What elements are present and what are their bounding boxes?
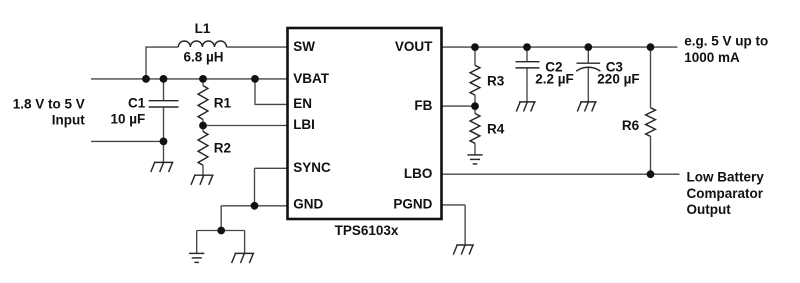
svg-text:L1: L1 (195, 21, 211, 36)
svg-text:220 µF: 220 µF (597, 71, 639, 86)
svg-text:10 µF: 10 µF (111, 112, 146, 127)
svg-text:Output: Output (687, 202, 732, 217)
svg-text:LBI: LBI (293, 117, 315, 132)
svg-text:VOUT: VOUT (395, 39, 433, 54)
svg-text:R3: R3 (487, 74, 505, 89)
svg-text:GND: GND (293, 197, 323, 212)
svg-text:R2: R2 (214, 141, 231, 156)
svg-text:2.2 µF: 2.2 µF (535, 71, 574, 86)
svg-text:SYNC: SYNC (293, 160, 331, 175)
svg-text:1.8 V to 5 V: 1.8 V to 5 V (13, 96, 85, 111)
svg-text:SW: SW (293, 39, 315, 54)
svg-text:1000 mA: 1000 mA (684, 50, 740, 65)
svg-text:C1: C1 (128, 96, 146, 111)
svg-text:TPS6103x: TPS6103x (335, 223, 399, 238)
svg-text:VBAT: VBAT (293, 71, 330, 86)
svg-text:Comparator: Comparator (687, 186, 764, 201)
svg-text:6.8 µH: 6.8 µH (183, 50, 223, 65)
svg-text:R4: R4 (487, 121, 505, 136)
svg-text:Low Battery: Low Battery (687, 169, 765, 184)
svg-text:PGND: PGND (393, 197, 432, 212)
svg-text:EN: EN (293, 96, 312, 111)
svg-text:FB: FB (414, 98, 432, 113)
svg-text:LBO: LBO (404, 166, 433, 181)
svg-text:R1: R1 (214, 95, 232, 110)
svg-text:Input: Input (52, 112, 85, 127)
svg-text:e.g. 5 V up to: e.g. 5 V up to (684, 34, 768, 49)
svg-text:R6: R6 (622, 118, 640, 133)
